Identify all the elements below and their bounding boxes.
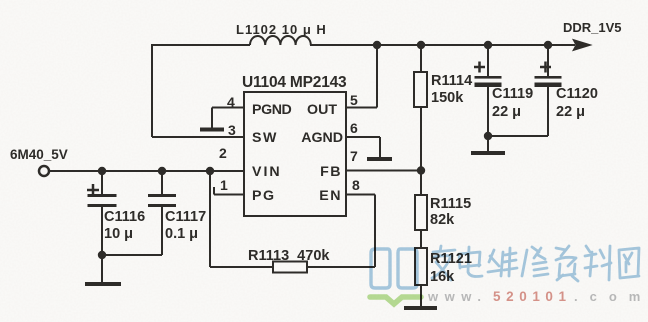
- inductor L1102: [250, 36, 311, 45]
- svg-text:.com: .com: [574, 289, 648, 304]
- capacitor C1120: [535, 45, 562, 136]
- resistor R1121: [415, 248, 427, 306]
- svg-text:SW: SW: [252, 130, 278, 146]
- svg-text:R1115: R1115: [430, 196, 471, 212]
- wire top rail left segment: [152, 44, 250, 46]
- wire R1113 left lead: [210, 266, 273, 268]
- watermark chinese characters: [432, 246, 639, 281]
- svg-text:OUT: OUT: [307, 102, 337, 118]
- svg-text:7: 7: [350, 148, 358, 164]
- wire cap bottoms link: [102, 254, 162, 256]
- svg-text:1: 1: [220, 177, 228, 193]
- node C1119 rail: [484, 41, 492, 49]
- wire to input ground: [101, 255, 103, 282]
- node DDR_1V5 arrow: [573, 40, 591, 51]
- wire left leg down to SW: [151, 44, 153, 137]
- wire R1113 right lead: [307, 266, 375, 268]
- svg-text:U1104 MP2143: U1104 MP2143: [242, 74, 347, 91]
- char dian: [459, 247, 482, 277]
- resistor R1114: [414, 45, 427, 171]
- svg-text:PG: PG: [252, 188, 276, 204]
- wire VIN node down to R1113: [209, 171, 211, 267]
- resistor R1115: [415, 171, 427, 249]
- wire pin 5 OUT to top rail: [346, 45, 377, 108]
- node input C1116: [98, 167, 106, 175]
- svg-text:DDR_1V5: DDR_1V5: [563, 20, 622, 35]
- svg-text:AGND: AGND: [301, 130, 343, 146]
- node C1120 rail: [544, 41, 552, 49]
- capacitor C1117: [148, 171, 176, 255]
- ground output caps: [471, 151, 505, 155]
- char jia: [432, 246, 455, 280]
- svg-text:6: 6: [350, 120, 358, 136]
- node FB divider: [417, 166, 425, 174]
- wire input rail to VIN: [49, 170, 244, 172]
- ground for pin 4: [200, 128, 224, 132]
- svg-text:R1113 470k: R1113 470k: [248, 248, 330, 264]
- svg-text:C1116: C1116: [104, 209, 145, 225]
- wire cap bottoms link right: [488, 135, 548, 137]
- char zi: [556, 246, 578, 281]
- wire top rail right segment: [310, 44, 575, 46]
- capacitor C1116: [87, 171, 117, 255]
- node OUT rail: [373, 41, 381, 49]
- svg-text:6M40_5V: 6M40_5V: [10, 147, 68, 162]
- capacitor C1119: [474, 45, 502, 136]
- watermark url www.520101.com: [427, 289, 648, 304]
- wire pin 8 EN: [346, 195, 375, 268]
- svg-text:L1102 10 μ H: L1102 10 μ H: [236, 22, 327, 37]
- watermark book swoosh: [370, 297, 421, 304]
- svg-text:0.1 μ: 0.1 μ: [165, 226, 198, 242]
- ground bottom right: [404, 306, 437, 310]
- wire pin 6 AGND: [346, 137, 380, 157]
- IC U1104 MP2143 body: [244, 92, 346, 216]
- svg-text:8: 8: [352, 177, 360, 193]
- char wang: [619, 248, 639, 278]
- svg-text:C1120: C1120: [556, 86, 598, 102]
- svg-text:PGND: PGND: [252, 102, 292, 118]
- svg-text:150k: 150k: [431, 90, 464, 106]
- node input C1117: [158, 167, 166, 175]
- watermark book icon: [371, 249, 417, 288]
- svg-text:520101: 520101: [493, 289, 572, 304]
- node caps gnd right: [484, 132, 492, 140]
- svg-text:82k: 82k: [430, 212, 455, 228]
- char wei: [488, 248, 517, 276]
- ground for pin 6: [367, 157, 392, 161]
- resistor R1113: [273, 262, 307, 273]
- char liao: [585, 246, 611, 280]
- svg-text:10 μ: 10 μ: [104, 226, 133, 242]
- ground input: [85, 282, 121, 286]
- svg-text:2: 2: [219, 145, 227, 161]
- svg-text:EN: EN: [319, 188, 342, 204]
- svg-text:22 μ: 22 μ: [556, 104, 585, 120]
- wire pin 4 PGND: [212, 108, 244, 129]
- node junction dots: [98, 41, 552, 259]
- svg-text:www.: www.: [427, 289, 487, 304]
- svg-text:22 μ: 22 μ: [492, 104, 521, 120]
- char xiu: [522, 247, 548, 276]
- svg-text:R1114: R1114: [431, 73, 472, 89]
- svg-text:C1117: C1117: [165, 209, 206, 225]
- svg-text:FB: FB: [320, 164, 342, 180]
- svg-text:VIN: VIN: [252, 164, 282, 180]
- terminal 6M40_5V: [39, 166, 49, 176]
- node R1114 rail: [417, 41, 425, 49]
- node input VIN: [206, 167, 214, 175]
- svg-text:5: 5: [350, 92, 358, 108]
- wire to output ground: [487, 136, 489, 151]
- wire SW pin 3: [152, 136, 244, 138]
- wire pin 1 PG stub: [214, 187, 244, 195]
- node caps gnd left: [98, 251, 106, 259]
- svg-text:3: 3: [228, 122, 236, 138]
- svg-text:C1119: C1119: [492, 86, 533, 102]
- wire pin 7 FB: [346, 170, 421, 172]
